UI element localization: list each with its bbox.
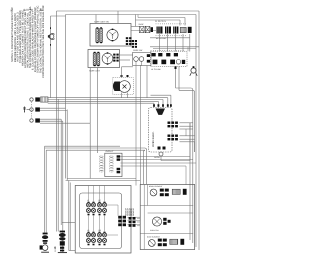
svg-text:BK W R BU: BK W R BU [156, 37, 167, 40]
svg-text:SURF SW: SURF SW [133, 49, 142, 52]
svg-text:BROIL ELEMENT: BROIL ELEMENT [149, 185, 162, 188]
svg-text:AB: AB [40, 9, 44, 12]
svg-text:SURF. UNIT: SURF. UNIT [89, 70, 101, 73]
svg-text:SENSOR: SENSOR [132, 207, 135, 216]
svg-text:BAKE ELEMENT: BAKE ELEMENT [147, 235, 160, 238]
svg-text:SURF: SURF [139, 23, 145, 26]
svg-text:COPPER CONDUCTORS ONLY. SEE TH: COPPER CONDUCTORS ONLY. SEE THE MINI MAN… [42, 5, 45, 78]
svg-text:LK CLN BK: LK CLN BK [151, 68, 161, 71]
svg-text:CONV FAN: CONV FAN [150, 229, 159, 232]
svg-text:OVEN LT: OVEN LT [106, 150, 115, 153]
svg-text:8-111-68: 8-111-68 [24, 9, 34, 12]
svg-text:CORD: CORD [54, 246, 57, 252]
svg-text:OVEN ELEC.: OVEN ELEC. [152, 131, 155, 147]
